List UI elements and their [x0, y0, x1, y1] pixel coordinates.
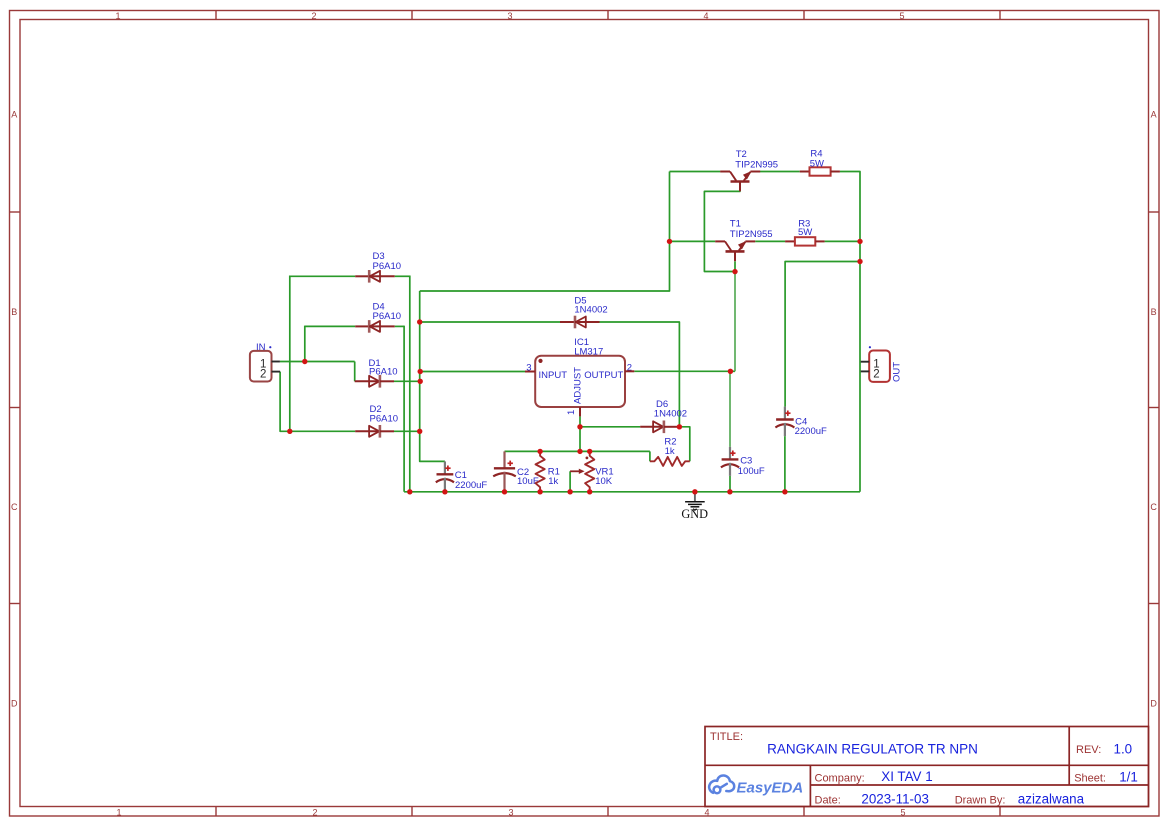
junction node (679.4,426.8) — [677, 424, 682, 429]
junction node (730.4,371.3) — [728, 369, 733, 374]
svg-text:B: B — [1151, 307, 1157, 317]
wire T1 collector to R3 — [755, 240, 785, 242]
wire IN pin2 jog down and right to D2 row — [280, 372, 290, 432]
svg-text:D: D — [11, 698, 18, 708]
svg-text:Company:: Company: — [815, 772, 865, 784]
junction node (289.8,431.3) — [287, 429, 292, 434]
diode D4 P6A10 — [355, 301, 401, 332]
capacitor C1 2200uF — [436, 461, 488, 491]
diode D3 P6A10 — [355, 251, 401, 282]
connector OUT (P2) — [869, 346, 902, 382]
junction node (860.0,261.5) — [857, 259, 862, 264]
junction node (735.0,271.6) — [732, 269, 737, 274]
svg-text:D: D — [1150, 698, 1157, 708]
svg-text:5W: 5W — [798, 227, 812, 238]
svg-text:1: 1 — [115, 11, 120, 21]
svg-text:TIP2N995: TIP2N995 — [735, 159, 778, 170]
svg-text:1N4002: 1N4002 — [654, 409, 687, 420]
wire D5 row left segment — [420, 321, 560, 323]
svg-text:P6A10: P6A10 — [373, 261, 402, 272]
wire R4 right then down right rail — [840, 172, 860, 492]
ground GND symbol — [681, 492, 708, 521]
wire T1 row left segment — [670, 240, 716, 242]
svg-text:EasyEDA: EasyEDA — [737, 779, 804, 796]
junction node (570.1,491.8) — [567, 489, 572, 494]
junction node (420.2,381.3) — [418, 379, 423, 384]
svg-text:2: 2 — [311, 11, 316, 21]
svg-text:5: 5 — [899, 11, 904, 21]
svg-text:INPUT: INPUT — [539, 370, 568, 381]
wire D4 row right segment — [395, 325, 404, 327]
svg-text:2200uF: 2200uF — [795, 426, 827, 437]
junction node (419.7,322.0) — [417, 319, 422, 324]
wire jog at output junction — [730, 370, 735, 372]
wire VR1 wiper down to bottom rail — [569, 471, 571, 492]
pin 2 lead of IC1 — [625, 370, 634, 372]
svg-text:GND: GND — [681, 507, 708, 521]
svg-text:5: 5 — [900, 808, 905, 818]
pin 3 lead of IC1 — [525, 371, 535, 373]
svg-text:OUT: OUT — [891, 362, 902, 382]
pin 1 lead of IC1 — [579, 407, 581, 416]
svg-text:1/1: 1/1 — [1119, 770, 1138, 785]
wire R1/VR1 top row — [505, 450, 650, 452]
wire vertical from D4 left down to IN pin1 row — [304, 326, 306, 362]
svg-text:4: 4 — [704, 808, 709, 818]
wire C3 vertical from output node — [729, 371, 731, 447]
wire R2 left step — [649, 451, 651, 461]
wire adjust node down to R1 row — [579, 427, 581, 452]
wire D6 row left segment — [580, 426, 640, 428]
junction node (784.9,491.8) — [782, 489, 787, 494]
wire D2 row left segment — [290, 430, 355, 432]
wire D4 row left segment — [305, 325, 355, 327]
wire main vertical bus x=420 from top row down to C1 branch — [420, 291, 445, 461]
svg-text:2: 2 — [873, 369, 879, 381]
svg-text:A: A — [1151, 110, 1157, 120]
svg-text:RANGKAIN REGULATOR TR NPN: RANGKAIN REGULATOR TR NPN — [767, 742, 978, 757]
junction node (504.5,491.8) — [502, 489, 507, 494]
svg-text:3: 3 — [508, 808, 513, 818]
junction node (304.8,361.5) — [302, 359, 307, 364]
wire T2 collector to R4 — [760, 171, 800, 173]
diode D5 1N4002 — [560, 295, 608, 328]
junction node (580.0,451.4) — [577, 449, 582, 454]
wire INPUT row — [420, 371, 525, 373]
wire T1 base stub to node — [734, 261, 736, 271]
wire vertical from D3 left down to D2 row — [289, 276, 291, 432]
svg-text:T2: T2 — [736, 149, 747, 160]
svg-text:C3: C3 — [740, 455, 752, 466]
regulator IC1 LM317 — [526, 337, 632, 415]
wire D5 row right then down to D6 junction — [600, 322, 680, 427]
svg-text:2023-11-03: 2023-11-03 — [861, 792, 929, 807]
junction node (409.8,491.8) — [407, 489, 412, 494]
svg-text:REV:: REV: — [1076, 744, 1101, 756]
svg-text:OUTPUT: OUTPUT — [584, 370, 623, 381]
resistor R2 1k — [650, 437, 690, 466]
wire T2 row left segment — [670, 171, 721, 173]
capacitor C2 10uF — [493, 451, 539, 491]
pin 1 lead of OUT — [861, 361, 870, 363]
svg-text:2: 2 — [260, 369, 266, 381]
diode D2 P6A10 — [355, 404, 398, 438]
svg-text:C: C — [1150, 502, 1157, 512]
capacitor C3 100uF — [721, 447, 765, 477]
junction node (669.5,241.4) — [667, 239, 672, 244]
potentiometer VR1 10K — [570, 451, 614, 491]
junction node (419.7,431.3) — [417, 429, 422, 434]
pin 1 lead of IN — [272, 361, 280, 363]
junction node (580.0,426.8) — [577, 424, 582, 429]
svg-text:A: A — [11, 110, 17, 120]
capacitor C4 2200uF — [775, 407, 827, 492]
svg-text:1N4002: 1N4002 — [574, 305, 607, 316]
wire top row y=291 — [420, 172, 670, 292]
diode D6 1N4002 — [640, 399, 687, 433]
junction node (589.7,491.8) — [587, 489, 592, 494]
wire D3 row right segment — [395, 275, 410, 277]
junction node (540.1,491.8) — [537, 489, 542, 494]
resistor R4 5W — [800, 149, 840, 176]
svg-text:P6A10: P6A10 — [369, 367, 398, 378]
transistor T1 TIP2N955 — [715, 219, 772, 262]
svg-text:1k: 1k — [548, 476, 558, 487]
junction node (540.1,451.4) — [537, 449, 542, 454]
wire D1 right segment — [394, 380, 420, 382]
svg-text:ADJUST: ADJUST — [573, 367, 584, 404]
wire T2 base down-left-down to T1 base node — [704, 191, 740, 271]
resistor R3 5W — [785, 218, 825, 245]
wire C3 bottom to rail — [729, 476, 731, 492]
wire C4 branch from right rail — [785, 262, 860, 407]
wire OUTPUT row — [634, 370, 730, 372]
svg-text:1: 1 — [566, 410, 577, 415]
svg-text:C: C — [11, 502, 18, 512]
junction node (729.9,491.8) — [727, 489, 732, 494]
svg-text:10K: 10K — [595, 476, 613, 487]
svg-text:4: 4 — [703, 11, 708, 21]
wire bottom ground rail — [404, 491, 860, 493]
svg-text:10uF: 10uF — [517, 476, 539, 487]
svg-text:Drawn By:: Drawn By: — [955, 795, 1006, 807]
junction node (444.9,491.8) — [442, 489, 447, 494]
pin 2 lead of IN — [272, 371, 281, 373]
svg-text:1.0: 1.0 — [1114, 741, 1133, 756]
wire R3 right to rail — [825, 240, 860, 242]
svg-text:3: 3 — [507, 11, 512, 21]
wire D6 right node to R2 right end — [679, 427, 689, 462]
resistor R1 1k — [536, 451, 560, 491]
svg-text:azizalwana: azizalwana — [1018, 792, 1085, 807]
svg-text:Sheet:: Sheet: — [1074, 773, 1106, 785]
wire D3 row left segment — [290, 275, 355, 277]
svg-text:XI TAV 1: XI TAV 1 — [881, 769, 932, 784]
junction node (420.2,371.5) — [418, 369, 423, 374]
svg-text:1k: 1k — [665, 446, 675, 457]
svg-text:1: 1 — [116, 808, 121, 818]
svg-text:LM317: LM317 — [574, 346, 603, 357]
svg-text:P6A10: P6A10 — [373, 311, 402, 322]
diode D1 P6A10 — [355, 358, 398, 388]
wire D2 right segment — [394, 430, 420, 432]
svg-text:5W: 5W — [810, 158, 824, 169]
transistor T2 TIP2N995 — [720, 149, 778, 191]
svg-text:IN: IN — [256, 342, 266, 353]
svg-text:100uF: 100uF — [738, 466, 765, 477]
pin 2 lead of OUT — [861, 370, 870, 372]
svg-text:P6A10: P6A10 — [370, 414, 399, 425]
junction node (694.9,491.8) — [692, 489, 697, 494]
wire LM317 adjust pin down to D6 node — [579, 416, 581, 426]
wire IN pin1 row — [280, 361, 355, 363]
wire step down from pin1 row to D1 — [354, 362, 356, 382]
connector IN (P1) — [250, 342, 272, 382]
wire T1 base node down to OUTPUT row — [734, 272, 736, 372]
wire vertical from D3 right down to bottom rail — [409, 276, 411, 492]
svg-text:B: B — [11, 307, 17, 317]
svg-text:TIP2N955: TIP2N955 — [730, 229, 773, 240]
svg-text:TITLE:: TITLE: — [710, 731, 743, 743]
junction node (860.0,241.4) — [857, 239, 862, 244]
wire vertical from D4 right down to bottom rail — [403, 326, 405, 492]
svg-text:Date:: Date: — [815, 795, 841, 807]
svg-text:2: 2 — [312, 808, 317, 818]
svg-text:2200uF: 2200uF — [455, 480, 487, 491]
junction node (589.7,451.4) — [587, 449, 592, 454]
